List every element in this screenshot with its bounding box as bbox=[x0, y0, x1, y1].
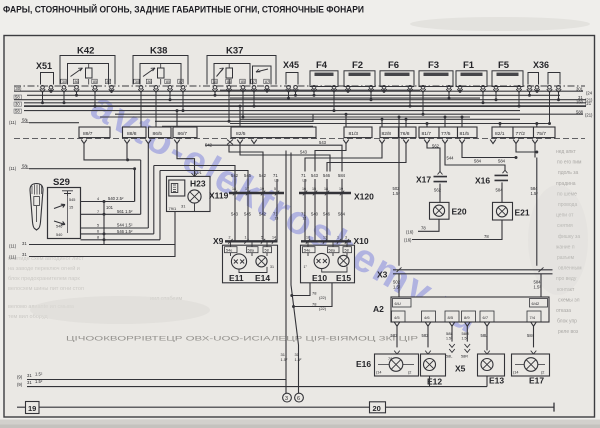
svg-text:7/4: 7/4 bbox=[530, 315, 536, 320]
svg-text:(30): (30) bbox=[14, 86, 22, 91]
S29 contact T bbox=[62, 191, 73, 196]
fuse F3 bbox=[419, 60, 453, 92]
svg-text:12: 12 bbox=[303, 217, 307, 221]
X9 bus pin bbox=[261, 236, 265, 244]
svg-text:562: 562 bbox=[434, 188, 442, 193]
svg-text:6: 6 bbox=[97, 230, 99, 234]
connector X5 bbox=[446, 344, 470, 374]
A2 terminal 8/5 bbox=[445, 311, 459, 322]
svg-text:81/5: 81/5 bbox=[460, 131, 470, 137]
svg-text:пдоль за: пдоль за bbox=[558, 170, 579, 176]
wire X36-4 bbox=[557, 92, 560, 101]
rail end tick bbox=[553, 403, 555, 412]
connector box 81/3 bbox=[344, 127, 372, 138]
X10 bus pin bbox=[323, 236, 327, 244]
wire 82/8 riser bbox=[305, 144, 382, 172]
svg-text:X3: X3 bbox=[377, 270, 388, 280]
svg-text:1.5²: 1.5² bbox=[393, 191, 401, 196]
connector pin bbox=[124, 140, 130, 144]
bus line 31 bbox=[14, 99, 586, 101]
wire feed 81/3 bbox=[345, 113, 348, 127]
watermark avto-elektroshemy.ru bbox=[84, 84, 488, 343]
svg-text:(16): (16) bbox=[406, 229, 414, 234]
wire F5 leg bbox=[495, 92, 498, 101]
svg-text:велосхем шины пит огни стоп: велосхем шины пит огни стоп bbox=[8, 286, 84, 292]
svg-text:76/8: 76/8 bbox=[400, 131, 410, 137]
svg-text:E11: E11 bbox=[229, 273, 244, 283]
long vertical 584 wire bbox=[531, 122, 539, 266]
connector X3 bbox=[377, 267, 553, 279]
svg-text:31: 31 bbox=[27, 373, 32, 378]
svg-text:5: 5 bbox=[261, 236, 263, 240]
connector box 77/2 bbox=[513, 127, 534, 138]
svg-text:6/42: 6/42 bbox=[532, 301, 541, 306]
fuse F1 bbox=[456, 60, 487, 92]
svg-text:F6: F6 bbox=[388, 60, 399, 71]
wire 76/8 riser bbox=[327, 144, 406, 172]
svg-text:E16: E16 bbox=[356, 359, 371, 369]
svg-text:544 1.5²: 544 1.5² bbox=[117, 223, 133, 228]
svg-text:542: 542 bbox=[259, 173, 267, 178]
wire F1 leg bbox=[459, 90, 462, 93]
svg-text:82/8: 82/8 bbox=[382, 131, 392, 137]
svg-text:7: 7 bbox=[97, 210, 99, 214]
svg-text:1.5²: 1.5² bbox=[462, 337, 469, 341]
wire K42-86 bbox=[75, 92, 78, 97]
svg-text:31: 31 bbox=[27, 380, 32, 385]
svg-text:F2: F2 bbox=[352, 60, 363, 71]
svg-text:58: 58 bbox=[22, 118, 27, 123]
scan bleed-through faint rows left bbox=[8, 256, 183, 320]
svg-text:54e: 54e bbox=[304, 249, 310, 253]
wire to S29 pin7 bbox=[140, 160, 142, 214]
svg-text:X10: X10 bbox=[354, 236, 369, 246]
svg-text:4: 4 bbox=[97, 197, 99, 201]
svg-text:(21: (21 bbox=[585, 101, 592, 106]
wire (11)58 second to S29 bundle bbox=[29, 169, 135, 202]
svg-text:58L: 58L bbox=[446, 331, 453, 336]
A2 terminal 7/4 bbox=[527, 311, 541, 322]
label 31 1.5 right bbox=[295, 352, 303, 362]
bus segment b bbox=[230, 97, 480, 99]
right-edge net labels bbox=[576, 87, 593, 118]
wire A2 to X5 L bbox=[446, 326, 453, 341]
svg-text:71: 71 bbox=[301, 173, 306, 178]
connector box 76/8 bbox=[399, 127, 417, 138]
svg-text:F4: F4 bbox=[316, 60, 328, 71]
svg-text:58L: 58L bbox=[481, 333, 489, 338]
svg-text:78: 78 bbox=[484, 234, 489, 239]
svg-text:4/5: 4/5 bbox=[394, 315, 400, 320]
bus segment a bbox=[220, 89, 420, 91]
connector pin bbox=[81, 140, 87, 144]
svg-text:584: 584 bbox=[338, 212, 346, 217]
page bottom shadow bbox=[0, 420, 600, 428]
svg-text:блок упр: блок упр bbox=[557, 319, 577, 325]
svg-text:LS: LS bbox=[303, 179, 308, 183]
wire 89/7 down bbox=[84, 144, 141, 162]
frame marker 20 bbox=[370, 402, 386, 413]
svg-text:5: 5 bbox=[97, 224, 99, 228]
svg-text:58L: 58L bbox=[446, 355, 452, 359]
svg-text:543: 543 bbox=[300, 149, 308, 154]
wire 88/8 down bbox=[126, 144, 128, 160]
svg-text:по его пим: по его пим bbox=[557, 160, 582, 166]
wire F2 leg bbox=[370, 92, 373, 101]
svg-text:58R: 58R bbox=[461, 355, 468, 359]
connector box 82/5 bbox=[231, 127, 316, 138]
svg-text:101: 101 bbox=[106, 205, 114, 210]
scan bleed-through bottom row bbox=[66, 336, 418, 343]
lamp unit H23 bbox=[167, 170, 211, 212]
svg-text:19: 19 bbox=[28, 404, 36, 413]
wire 82/5 to X120 bbox=[240, 144, 330, 172]
svg-text:77/2: 77/2 bbox=[516, 131, 526, 137]
svg-text:6: 6 bbox=[297, 396, 300, 402]
wire F5 leg bbox=[518, 92, 521, 107]
relay K42 bbox=[60, 46, 115, 93]
svg-text:14: 14 bbox=[272, 236, 276, 240]
svg-text:16: 16 bbox=[302, 187, 306, 191]
A2 terminal 4/5 bbox=[392, 311, 406, 322]
wire E20 return bbox=[406, 219, 439, 234]
crossing mark bbox=[227, 140, 233, 145]
connector box 88/8 bbox=[123, 127, 147, 138]
svg-text:(11): (11) bbox=[9, 255, 17, 260]
wire F4 leg bbox=[313, 92, 316, 97]
wire 81/5 stub bbox=[462, 144, 518, 159]
svg-text:(2: (2 bbox=[408, 371, 411, 375]
wire 81/3 riser bbox=[315, 144, 346, 172]
ground point circle 6 bbox=[295, 393, 304, 402]
connector box 82/1 bbox=[492, 127, 513, 138]
lamp E21 bbox=[493, 202, 530, 220]
svg-text:1.5²: 1.5² bbox=[35, 379, 43, 384]
lamp E12 bbox=[421, 351, 446, 387]
svg-text:X5: X5 bbox=[455, 364, 466, 374]
label (11) 31 bbox=[9, 241, 27, 249]
svg-text:F1: F1 bbox=[463, 60, 475, 71]
wire 31 net left bbox=[285, 151, 287, 394]
wire feed 81/7 bbox=[426, 122, 429, 127]
wire feed 82/8 bbox=[381, 118, 384, 127]
X9 bus pin bbox=[272, 236, 276, 244]
bus line 5 (thick) bbox=[24, 105, 586, 107]
svg-text:(22): (22) bbox=[319, 306, 327, 311]
svg-text:ЦІЧООКВОРРІВТЕЦР ОВХ-UОО-ИСІАЛ: ЦІЧООКВОРРІВТЕЦР ОВХ-UОО-ИСІАЛЕЦР ЦІЯ-ВІ… bbox=[66, 336, 418, 343]
svg-text:82/1: 82/1 bbox=[495, 131, 505, 137]
svg-text:(11): (11) bbox=[9, 120, 17, 125]
svg-text:18: 18 bbox=[306, 236, 310, 240]
A2 pin chevron bbox=[449, 322, 455, 326]
wire K42-87 bbox=[110, 90, 113, 93]
svg-text:544: 544 bbox=[447, 156, 455, 161]
svg-text:58: 58 bbox=[265, 249, 269, 253]
svg-text:(2: (2 bbox=[541, 371, 544, 375]
connector X16 bbox=[475, 170, 508, 202]
wire K38-85 bbox=[169, 92, 172, 101]
svg-text:1.5²: 1.5² bbox=[281, 357, 289, 362]
connector X51 bbox=[36, 61, 54, 92]
svg-text:A2: A2 bbox=[373, 304, 384, 314]
connector box 77/5 bbox=[439, 127, 458, 138]
svg-text:543: 543 bbox=[231, 212, 239, 217]
svg-text:79/1: 79/1 bbox=[169, 206, 178, 211]
svg-text:58: 58 bbox=[345, 249, 349, 253]
svg-text:1.5²: 1.5² bbox=[534, 284, 542, 289]
svg-text:K37: K37 bbox=[226, 46, 243, 57]
svg-text:546 1.5²: 546 1.5² bbox=[117, 229, 133, 234]
X119 pin 17 bbox=[244, 173, 252, 241]
svg-text:584: 584 bbox=[496, 188, 504, 193]
connector box 81/7 bbox=[419, 127, 439, 138]
svg-text:17/1: 17/1 bbox=[194, 170, 203, 175]
svg-text:E15: E15 bbox=[336, 273, 351, 283]
bus segment c bbox=[100, 116, 470, 118]
svg-text:E13: E13 bbox=[489, 376, 504, 386]
svg-text:S29: S29 bbox=[53, 177, 70, 188]
S29 switch box bbox=[48, 188, 81, 239]
wire F4 leg bbox=[333, 92, 336, 112]
svg-text:1.5²: 1.5² bbox=[295, 357, 303, 362]
A2 terminal 4/6 bbox=[422, 311, 436, 322]
lamp box E10/E15 (X10) bbox=[301, 241, 355, 282]
svg-text:31: 31 bbox=[181, 204, 186, 209]
svg-text:582: 582 bbox=[422, 333, 430, 338]
wire X10 ground stub 1 bbox=[290, 283, 326, 300]
svg-text:(14: (14 bbox=[513, 371, 519, 375]
A2 pin chevron bbox=[465, 322, 471, 326]
connector X36 bbox=[527, 60, 561, 92]
wire H23 ground drop bbox=[174, 212, 176, 245]
wire A2 to E12 bbox=[422, 326, 430, 347]
wire E12 ground bbox=[429, 376, 431, 387]
wire K37-5 bbox=[266, 89, 269, 93]
X9 bus pin bbox=[228, 236, 232, 244]
X119 pin 18 bbox=[231, 173, 239, 241]
S29 pin 5 bbox=[81, 223, 149, 228]
bus line 6 bbox=[24, 110, 520, 112]
wire feed 76/8 bbox=[405, 118, 408, 127]
svg-text:6/U: 6/U bbox=[395, 301, 401, 306]
svg-text:1°: 1° bbox=[304, 265, 308, 269]
svg-text:20: 20 bbox=[373, 404, 381, 413]
S29 pin 6 bbox=[81, 229, 154, 236]
wire 31 net right bbox=[291, 153, 299, 394]
wire 81/7 to X17 bbox=[427, 144, 440, 172]
wire F1 leg bbox=[482, 92, 485, 104]
connector X45 bbox=[283, 60, 299, 92]
wire feed 81/5 bbox=[461, 116, 464, 128]
svg-text:F5: F5 bbox=[498, 60, 510, 71]
left-edge net labels bbox=[9, 86, 29, 171]
svg-text:1: 1 bbox=[245, 236, 247, 240]
wire 86/7 to H23 bbox=[177, 144, 195, 177]
svg-text:542: 542 bbox=[259, 212, 267, 217]
bus line 2 bbox=[27, 94, 560, 96]
bottom rail line bbox=[17, 406, 554, 408]
lamp box E11/E14 (X9) bbox=[223, 241, 278, 282]
connector pin bbox=[403, 140, 409, 144]
wire X51-2 to bus bbox=[50, 90, 53, 93]
svg-text:89/7: 89/7 bbox=[83, 131, 93, 137]
S29 pin 7 bbox=[81, 205, 141, 216]
wire K37-2 bbox=[228, 92, 231, 123]
wire K37-1 bbox=[214, 92, 217, 97]
wire X10 ground stub 2 bbox=[292, 283, 332, 311]
relay K38 bbox=[133, 46, 188, 93]
control unit A2 bbox=[373, 297, 549, 322]
wire X36-3 down to 75/7 bbox=[548, 92, 551, 125]
svg-text:77/5: 77/5 bbox=[441, 131, 451, 137]
svg-text:E10: E10 bbox=[312, 273, 327, 283]
svg-text:561 1.5²: 561 1.5² bbox=[117, 209, 133, 214]
wire feed 82/5 bbox=[239, 105, 242, 127]
svg-text:584: 584 bbox=[474, 158, 482, 163]
svg-text:ФАРЫ, СТОЯНОЧНЫЙ ОГОНЬ, ЗАДНИЕ: ФАРЫ, СТОЯНОЧНЫЙ ОГОНЬ, ЗАДНИЕ ГАБАРИТНЫ… bbox=[3, 4, 364, 15]
X9 bus pin bbox=[244, 236, 248, 244]
A2 pin chevron bbox=[484, 322, 490, 326]
wire K42-30 bbox=[63, 92, 66, 104]
svg-text:540: 540 bbox=[56, 233, 62, 237]
label (9)31 a bbox=[17, 372, 43, 380]
wire 77/5 to X16 bbox=[445, 144, 506, 170]
connector pin bbox=[146, 140, 152, 144]
wire K38-86 to 86/5 bbox=[155, 92, 157, 127]
svg-text:E21: E21 bbox=[515, 208, 530, 218]
relay K37 bbox=[207, 46, 276, 93]
label (9)31 b bbox=[17, 379, 43, 387]
svg-text:на заводе переключ огней и: на заводе переключ огней и bbox=[8, 265, 80, 272]
svg-text:18: 18 bbox=[232, 187, 236, 191]
svg-text:(22): (22) bbox=[319, 295, 327, 300]
wire K38-87 bbox=[182, 92, 185, 112]
svg-text:8: 8 bbox=[97, 235, 99, 239]
svg-text:нед апкт: нед апкт bbox=[556, 149, 576, 155]
connector box 75/7 bbox=[534, 127, 556, 138]
svg-text:X9: X9 bbox=[213, 236, 224, 246]
svg-text:540: 540 bbox=[311, 212, 319, 217]
svg-text:78: 78 bbox=[388, 357, 392, 361]
connector pin bbox=[459, 140, 465, 144]
wire above 82/1 bbox=[494, 123, 545, 125]
connector pin bbox=[442, 140, 448, 144]
connector X10 bbox=[301, 236, 369, 246]
fuse F6 bbox=[380, 60, 414, 92]
A2 pin chevron bbox=[531, 322, 537, 326]
connector box 81/5 bbox=[458, 127, 478, 138]
svg-text:6/7: 6/7 bbox=[483, 315, 489, 320]
svg-text:H23: H23 bbox=[190, 179, 206, 189]
svg-text:19: 19 bbox=[260, 187, 264, 191]
X10 bus pin bbox=[345, 236, 349, 244]
wire F2 leg bbox=[347, 90, 350, 93]
svg-text:15: 15 bbox=[69, 206, 73, 210]
wire A2 to E13 bbox=[481, 326, 489, 350]
svg-text:(11): (11) bbox=[9, 166, 17, 171]
svg-text:15: 15 bbox=[312, 187, 316, 191]
svg-text:8/9: 8/9 bbox=[464, 315, 470, 320]
svg-text:86/7: 86/7 bbox=[178, 131, 188, 137]
svg-text:(24: (24 bbox=[586, 91, 593, 96]
fuse F5 bbox=[492, 60, 523, 92]
connector pin bbox=[513, 140, 519, 144]
svg-text:1.5²: 1.5² bbox=[531, 191, 539, 196]
svg-text:X16: X16 bbox=[475, 176, 490, 186]
label (11) 31 b bbox=[9, 252, 27, 260]
svg-text:546: 546 bbox=[323, 173, 331, 178]
svg-text:540 2.5²: 540 2.5² bbox=[108, 196, 124, 201]
svg-text:4/6: 4/6 bbox=[424, 315, 430, 320]
svg-text:F3: F3 bbox=[428, 60, 439, 71]
wire 543 label line bbox=[205, 142, 263, 193]
svg-text:542: 542 bbox=[231, 173, 239, 178]
svg-text:5: 5 bbox=[274, 187, 276, 191]
svg-text:584: 584 bbox=[498, 158, 506, 163]
wire K37-3 bbox=[242, 92, 245, 118]
svg-text:582: 582 bbox=[391, 333, 399, 338]
svg-text:отказа: отказа bbox=[556, 308, 571, 314]
svg-text:546: 546 bbox=[56, 225, 62, 229]
svg-text:1.5²: 1.5² bbox=[446, 337, 453, 341]
wire E21 return bbox=[404, 220, 502, 242]
long vertical 502 wire bbox=[393, 116, 401, 266]
svg-text:58: 58 bbox=[15, 109, 20, 114]
A2 terminal 8/9 bbox=[462, 311, 476, 322]
svg-text:546: 546 bbox=[323, 212, 331, 217]
control stalk lever bbox=[30, 184, 43, 231]
wire E13 ground bbox=[486, 376, 488, 387]
svg-text:588: 588 bbox=[576, 110, 584, 115]
wire X3 to A2 right bbox=[534, 274, 542, 297]
svg-text:81/3: 81/3 bbox=[349, 131, 359, 137]
svg-text:X51: X51 bbox=[36, 61, 52, 71]
scan bleed-through right column bbox=[556, 149, 582, 335]
wire S29 pin6 riser bbox=[154, 166, 235, 234]
svg-text:3: 3 bbox=[285, 396, 288, 402]
svg-text:K42: K42 bbox=[77, 46, 94, 57]
S29 pin 4 bbox=[81, 196, 135, 203]
bus segment g bbox=[162, 125, 313, 127]
dash-dot boundary line of fuse/relay box bbox=[14, 85, 585, 87]
wire F6 leg bbox=[409, 92, 412, 107]
wire feed 82/1 bbox=[499, 122, 502, 127]
svg-text:X119: X119 bbox=[209, 191, 229, 201]
bus line 588 bbox=[115, 113, 583, 115]
bus line 150 bbox=[24, 102, 586, 104]
wire (11)58 to 89/7 bbox=[29, 122, 79, 124]
svg-text:31: 31 bbox=[22, 252, 27, 257]
connector pin bbox=[251, 140, 257, 144]
connector pin bbox=[174, 140, 180, 144]
svg-text:58: 58 bbox=[15, 95, 20, 100]
wire K37-4 bbox=[253, 92, 256, 107]
connector pin bbox=[343, 140, 349, 144]
svg-text:78: 78 bbox=[312, 291, 317, 296]
svg-text:X120: X120 bbox=[354, 192, 374, 202]
wire X36-1 bbox=[528, 92, 531, 97]
wire S29 pin8 riser bbox=[160, 171, 248, 240]
svg-text:75/7: 75/7 bbox=[537, 131, 547, 137]
svg-text:543: 543 bbox=[311, 173, 319, 178]
svg-text:K38: K38 bbox=[150, 46, 167, 57]
svg-text:81/7: 81/7 bbox=[422, 131, 432, 137]
svg-text:1.5²: 1.5² bbox=[35, 372, 43, 377]
wire 545 bundle bbox=[205, 140, 342, 172]
ground point circle 3 bbox=[283, 393, 292, 402]
X119 pin 5 bbox=[273, 173, 279, 241]
svg-text:E14: E14 bbox=[255, 273, 270, 283]
